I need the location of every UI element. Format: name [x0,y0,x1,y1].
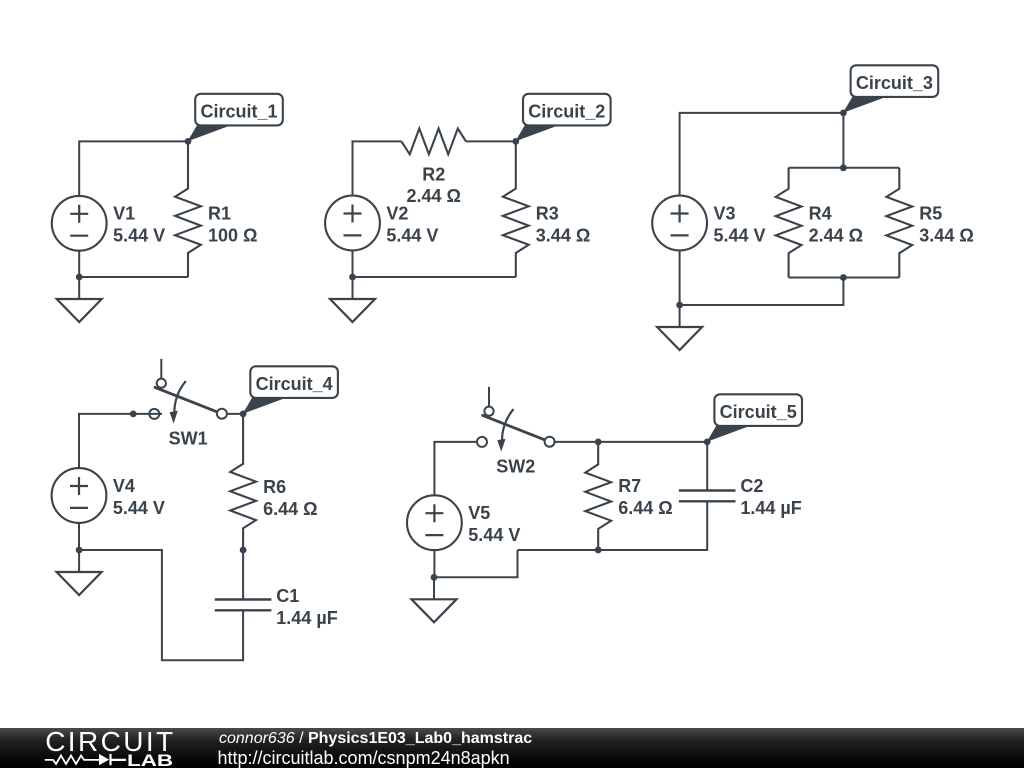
wire [789,167,900,169]
wire [434,442,477,495]
voltage source V1 [52,196,107,251]
node V5 bottom [431,574,438,581]
node Circuit_2 net [512,138,519,145]
wire [433,550,435,577]
SW2 label [496,457,535,477]
svg-text:2.44 Ω: 2.44 Ω [809,226,863,246]
wire [434,550,518,577]
wire [518,501,708,550]
R3 labels [536,204,590,246]
V5 labels [468,503,520,545]
capacitor C1 [215,600,272,611]
V2 labels [386,203,438,245]
wire [466,140,516,142]
svg-text:C1: C1 [276,586,299,606]
ground circuit 4 [57,550,102,595]
switch SW1 [149,359,227,424]
callout flag Circuit_3 [843,65,938,113]
node R6-C1 joint [240,547,247,554]
C1 labels [276,586,337,628]
node Circuit_4 net [240,411,247,418]
svg-text:6.44 Ω: 6.44 Ω [263,499,317,519]
svg-text:100 Ω: 100 Ω [208,226,257,246]
svg-text:R6: R6 [263,477,286,497]
node V1 bottom [76,274,83,281]
R5 labels [919,204,973,246]
wire [78,251,80,277]
switch SW2 [477,387,555,452]
svg-text:1.44 µF: 1.44 µF [276,608,337,628]
svg-text:R5: R5 [919,204,942,224]
C2 labels [740,476,801,518]
svg-text:5.44 V: 5.44 V [714,225,766,245]
voltage source V2 [325,196,380,251]
voltage source V3 [652,196,707,251]
R1 labels [208,204,257,246]
voltage source V4 [52,468,107,523]
wire [353,276,516,278]
node V2 bottom [349,274,356,281]
svg-text:R7: R7 [618,476,641,496]
svg-text:V4: V4 [113,476,135,496]
wire [842,113,844,168]
wire [78,523,80,550]
node V4 bottom [76,547,83,554]
wire [79,141,188,196]
resistor R5 [886,168,912,278]
node Circuit_1 net [185,138,192,145]
wire [79,276,188,278]
node V3 bottom [676,302,683,309]
svg-text:V2: V2 [386,203,408,223]
svg-text:5.44 V: 5.44 V [468,525,520,545]
node rail top [840,164,847,171]
svg-text:C2: C2 [740,476,763,496]
svg-text:Circuit_1: Circuit_1 [200,102,277,122]
logo resistor-diode glyph [45,756,99,765]
resistor R1 [175,141,201,277]
footer url line [218,748,510,769]
callout flag Circuit_5 [707,394,802,442]
voltage source V5 [407,495,462,550]
svg-text:Circuit_2: Circuit_2 [528,102,605,122]
ground circuit 3 [657,305,702,350]
ground circuit 1 [57,277,102,322]
callout flag Circuit_4 [243,366,338,414]
svg-text:3.44 Ω: 3.44 Ω [919,226,973,246]
wire [706,442,708,491]
svg-text:R1: R1 [208,204,231,224]
SW1 label [169,429,208,449]
callout flag Circuit_2 [515,94,610,142]
svg-text:SW1: SW1 [169,429,208,449]
node rail joint [595,547,602,554]
ground circuit 2 [330,277,375,322]
resistor R6 [230,414,256,550]
callout flag Circuit_1 [188,94,283,142]
svg-text:R4: R4 [809,204,832,224]
svg-text:Circuit_4: Circuit_4 [256,374,333,394]
svg-text:V3: V3 [714,203,736,223]
svg-text:R2: R2 [422,165,445,185]
footer bar [0,728,1024,768]
svg-text:V5: V5 [468,503,490,523]
wire [680,113,844,196]
wire [79,550,243,660]
capacitor C2 [679,491,736,502]
svg-text:5.44 V: 5.44 V [386,225,438,245]
R2 labels [407,165,461,207]
V3 labels [714,203,766,245]
footer credit line [219,730,532,748]
wire [680,278,844,306]
svg-text:5.44 V: 5.44 V [113,498,165,518]
resistor R2 [402,129,467,155]
svg-text:R3: R3 [536,204,559,224]
wire [79,414,162,468]
svg-text:V1: V1 [113,204,135,224]
V4 labels [113,476,165,518]
wire [352,250,354,277]
node switch feed [130,411,137,418]
svg-text:6.44 Ω: 6.44 Ω [618,498,672,518]
svg-text:5.44 V: 5.44 V [113,226,165,246]
svg-text:Circuit_5: Circuit_5 [720,402,797,422]
resistor R7 [585,442,611,550]
R6 labels [263,477,317,519]
svg-text:3.44 Ω: 3.44 Ω [536,226,590,246]
resistor R3 [503,141,529,277]
resistor R4 [776,168,802,278]
node rail bottom [840,274,847,281]
svg-text:1.44 µF: 1.44 µF [740,498,801,518]
svg-text:LAB: LAB [127,751,173,768]
node Circuit_3 net [840,110,847,117]
node R7 top [595,439,602,446]
wire [679,250,681,305]
svg-text:Circuit_3: Circuit_3 [856,73,933,93]
ground circuit 5 [412,577,457,622]
V1 labels [113,204,165,246]
wire [353,141,402,195]
wire [242,550,244,600]
wire [555,441,708,443]
svg-text:SW2: SW2 [496,457,535,477]
wire [227,413,243,415]
node Circuit_5 net [704,439,711,446]
wire [789,277,900,279]
R4 labels [809,204,863,246]
svg-text:2.44 Ω: 2.44 Ω [407,186,461,206]
R7 labels [618,476,672,518]
